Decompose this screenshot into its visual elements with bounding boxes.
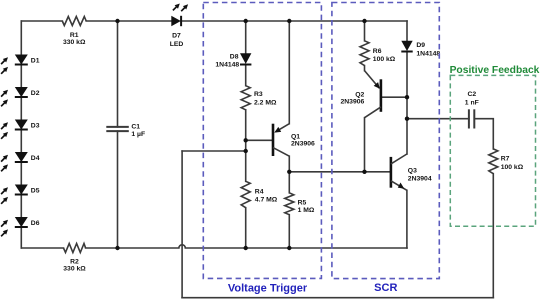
resistor R4 labels — [255, 188, 278, 203]
Voltage Trigger box — [203, 3, 321, 279]
transistor Q1 — [273, 124, 315, 157]
svg-text:1N4148: 1N4148 — [416, 51, 440, 58]
svg-text:D5: D5 — [31, 188, 40, 195]
svg-text:R1: R1 — [70, 32, 79, 39]
node top rail / D8 branch junction — [244, 19, 248, 23]
wire R3 to R4 branch — [245, 110, 247, 182]
svg-text:2.2 MΩ: 2.2 MΩ — [254, 99, 277, 106]
svg-text:C2: C2 — [467, 91, 476, 98]
svg-text:Positive Feedback: Positive Feedback — [450, 65, 540, 76]
wire Q1 base — [246, 139, 272, 141]
svg-text:1 nF: 1 nF — [465, 99, 479, 106]
photodiode D5 — [1, 185, 40, 204]
resistor R5 labels — [298, 199, 315, 214]
svg-text:R3: R3 — [254, 91, 263, 98]
svg-text:100 kΩ: 100 kΩ — [373, 56, 396, 63]
SCR box — [332, 3, 439, 279]
photodiode D1 — [1, 55, 40, 74]
svg-text:Q3: Q3 — [408, 167, 417, 174]
Positive Feedback box — [450, 75, 535, 226]
photodiode D3 — [1, 120, 40, 139]
node bottom rail / R4 junction — [244, 246, 248, 250]
wire bottom rail middle segment with hop — [86, 245, 407, 248]
svg-text:R4: R4 — [255, 188, 264, 195]
node top rail / Q1 emitter junction — [287, 19, 291, 23]
diode D9 — [401, 41, 440, 58]
svg-text:2N3906: 2N3906 — [340, 98, 364, 105]
wire D9 cathode down through junctions — [406, 52, 408, 155]
svg-text:D3: D3 — [31, 123, 40, 130]
svg-text:2N3904: 2N3904 — [408, 175, 432, 182]
LED D7 — [170, 4, 188, 48]
resistor R3 labels — [254, 91, 277, 106]
photodiode D4 — [1, 152, 40, 171]
wire C1 branch upper — [117, 21, 119, 127]
svg-text:LED: LED — [170, 41, 184, 48]
svg-text:D4: D4 — [31, 155, 40, 162]
wire R7 down right side — [492, 174, 494, 298]
svg-text:D2: D2 — [31, 90, 40, 97]
wire top rail right segment — [181, 20, 407, 22]
wire D9 anode from top rail — [406, 21, 408, 41]
transistor Q2 — [340, 71, 380, 118]
wire Q2 collector drop — [364, 118, 366, 172]
svg-text:R6: R6 — [373, 48, 382, 55]
svg-text:C1: C1 — [131, 123, 140, 130]
node bottom rail / R5 junction — [287, 246, 291, 250]
wire C1 branch lower — [117, 131, 119, 248]
resistor R1 — [62, 17, 86, 26]
resistor R4 — [241, 181, 250, 207]
node SCR gate / C2 junction — [405, 117, 409, 121]
svg-text:R2: R2 — [70, 258, 79, 265]
svg-text:1 µF: 1 µF — [131, 131, 145, 138]
wire R6 to Q2 emitter — [364, 66, 366, 71]
wire top rail left segment — [21, 20, 62, 22]
svg-text:330 kΩ: 330 kΩ — [63, 39, 86, 46]
node Q2 base / D9 junction — [405, 95, 409, 99]
wire Q1 collector to Q3 base — [289, 171, 390, 173]
wire Q1 emitter drop — [288, 21, 290, 124]
wire feedback to R3/R4 node — [182, 150, 246, 152]
resistor R7 labels — [501, 155, 524, 171]
svg-text:Q1: Q1 — [291, 133, 300, 140]
resistor R5 — [285, 193, 294, 215]
wire C2 to R7 corner — [474, 119, 493, 149]
wire node junction to R5 — [288, 172, 290, 193]
node Q3 base junction — [362, 170, 366, 174]
svg-text:R7: R7 — [501, 155, 510, 162]
transistor Q3 — [391, 154, 432, 190]
svg-text:D6: D6 — [31, 220, 40, 227]
svg-text:SCR: SCR — [374, 282, 397, 294]
wire R5 to bottom rail — [288, 215, 290, 248]
wire top rail middle segment — [86, 20, 171, 22]
wire Q1 collector drop — [288, 156, 290, 172]
node feedback junction — [244, 149, 248, 153]
svg-text:D8: D8 — [230, 54, 239, 61]
wire R6 from top rail — [364, 21, 366, 41]
svg-text:100 kΩ: 100 kΩ — [501, 164, 524, 171]
resistor R6 labels — [373, 48, 396, 63]
svg-text:1N4148: 1N4148 — [215, 62, 239, 69]
svg-text:Voltage Trigger: Voltage Trigger — [228, 283, 308, 295]
wire D8 cathode to R3 — [245, 65, 247, 86]
resistor R6 — [360, 41, 369, 66]
capacitor C2 labels — [465, 91, 479, 106]
wire D8 anode from top rail — [245, 21, 247, 53]
resistor R1 labels — [63, 32, 86, 46]
node top rail / C1 junction — [115, 19, 119, 23]
resistor R2 — [64, 244, 86, 253]
node Q1 base junction — [244, 138, 248, 142]
resistor R3 — [241, 86, 250, 110]
wire feedback left riser — [181, 151, 183, 298]
svg-text:D9: D9 — [416, 42, 425, 49]
photodiode D6 — [1, 217, 40, 236]
node bottom rail / C1 junction — [115, 246, 119, 250]
wire R4 to bottom rail — [245, 208, 247, 248]
svg-text:R5: R5 — [298, 199, 307, 206]
wire left rail — [20, 21, 22, 248]
svg-text:330 kΩ: 330 kΩ — [63, 265, 86, 272]
svg-text:2N3906: 2N3906 — [291, 141, 315, 148]
svg-text:1 MΩ: 1 MΩ — [298, 207, 315, 214]
wire feedback bottom run — [182, 297, 493, 299]
wire Q2 base — [382, 96, 407, 98]
wire bottom rail left segment — [21, 247, 63, 249]
svg-text:D1: D1 — [31, 58, 40, 65]
svg-text:D7: D7 — [172, 32, 181, 39]
node Q1 collector / R5 junction — [287, 170, 291, 174]
diode D8 — [215, 53, 251, 68]
photodiode D2 — [1, 87, 40, 106]
resistor R2 labels — [63, 258, 86, 272]
resistor R7 — [489, 149, 498, 174]
capacitor C1 — [106, 127, 129, 131]
capacitor C1 labels — [131, 123, 145, 138]
wire gate node to C2 — [407, 118, 469, 120]
wire Q3 emitter to bottom rail — [406, 190, 408, 248]
svg-text:4.7 MΩ: 4.7 MΩ — [255, 196, 278, 203]
capacitor C2 — [469, 109, 474, 128]
node top rail / R6 junction — [362, 19, 366, 23]
